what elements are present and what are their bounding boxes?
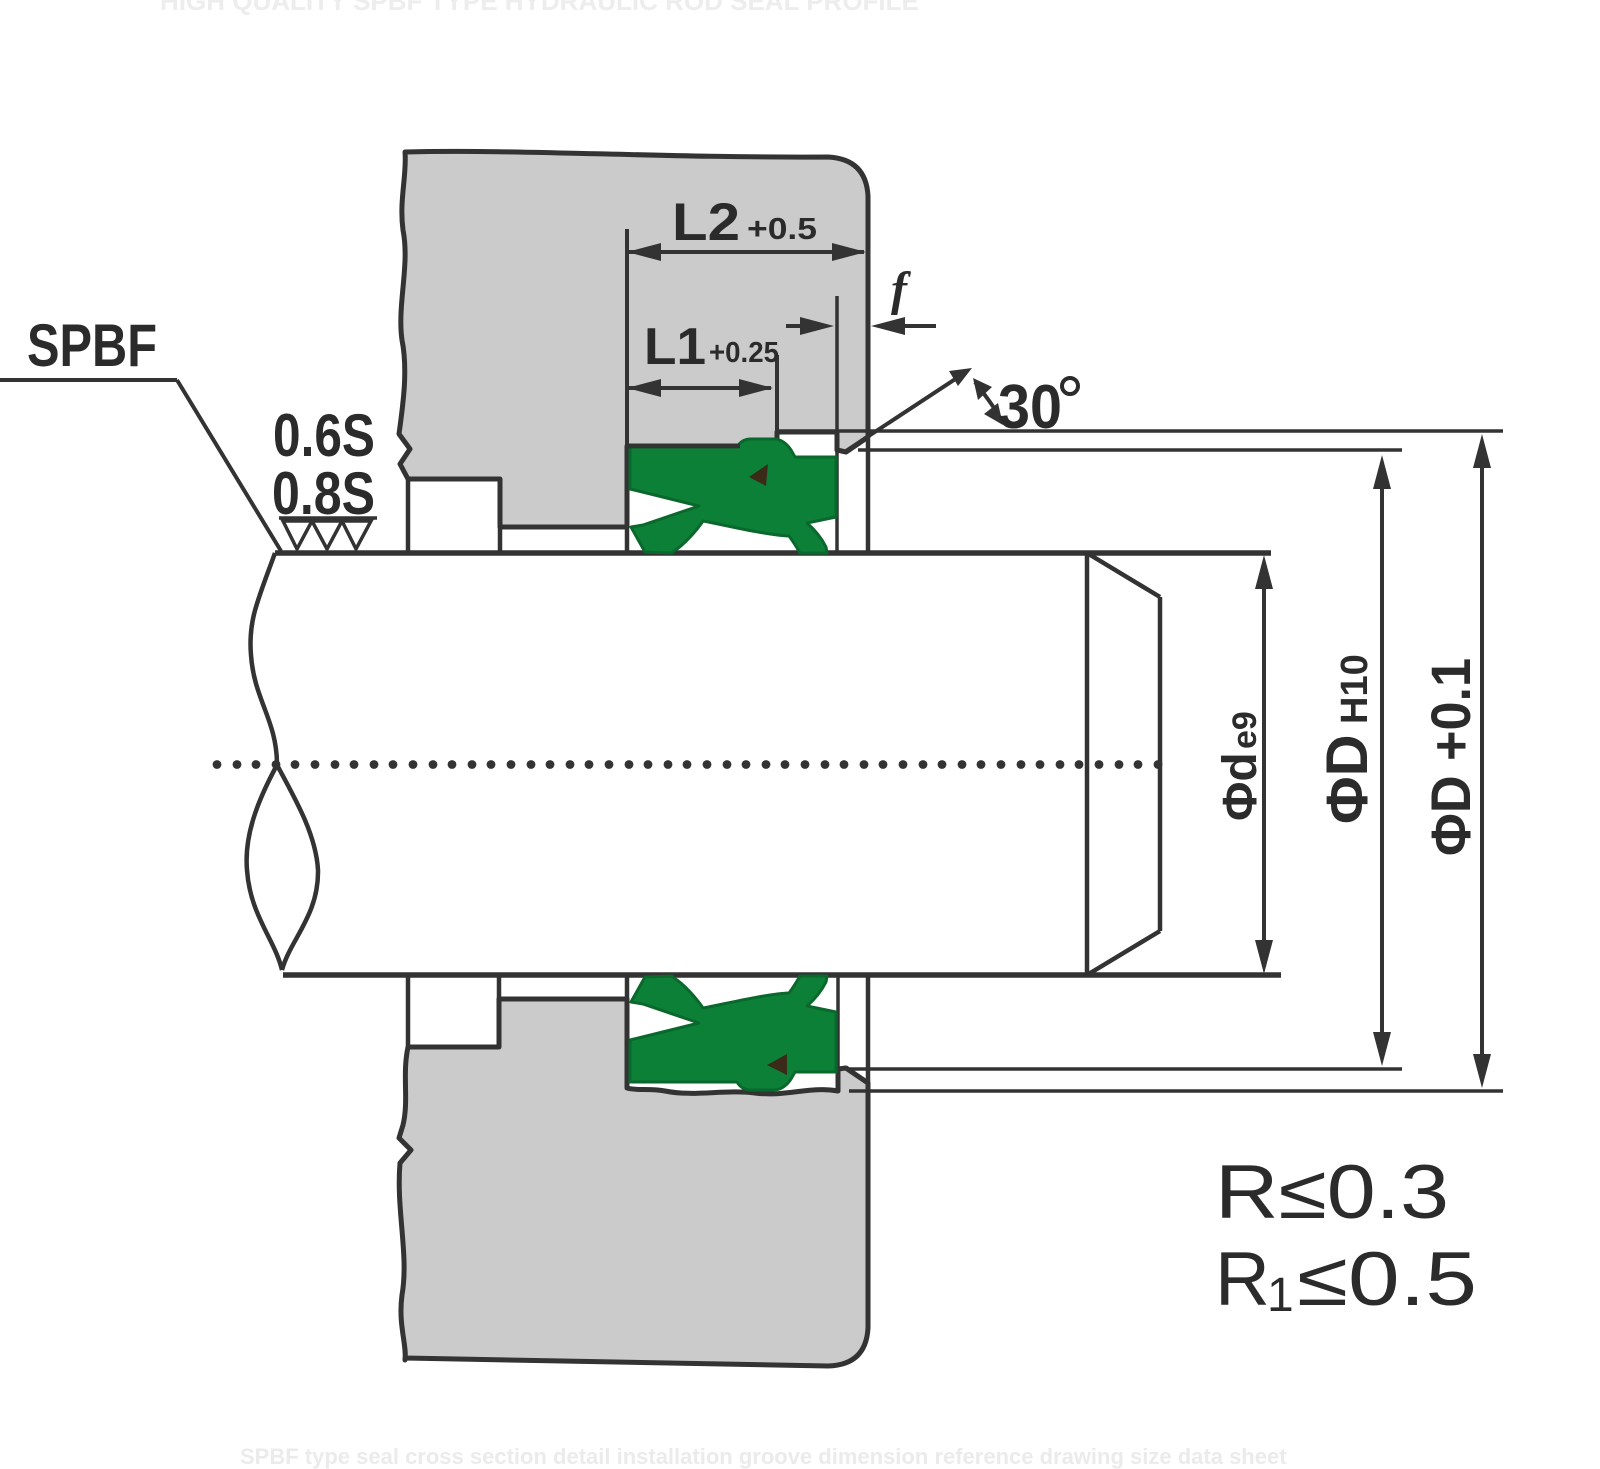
svg-text:0.6S: 0.6S [273,402,375,469]
svg-text:1: 1 [1267,1269,1294,1322]
svg-text:HIGH QUALITY SPBF TYPE HYDRAUL: HIGH QUALITY SPBF TYPE HYDRAULIC ROD SEA… [160,0,919,16]
svg-text:ΦD +0.1: ΦD +0.1 [1419,658,1482,856]
svg-text:L2: L2 [672,193,740,252]
svg-text:Φd: Φd [1214,752,1267,821]
svg-text:e9: e9 [1226,711,1264,749]
svg-text:R≤0.3: R≤0.3 [1215,1150,1449,1235]
svg-text:+0.25: +0.25 [709,337,779,369]
svg-text:f: f [891,263,911,316]
svg-text:ΦD: ΦD [1315,735,1380,825]
svg-text:H10: H10 [1334,654,1376,724]
svg-text:+0.5: +0.5 [747,211,817,246]
svg-text:≤0.5: ≤0.5 [1297,1237,1477,1322]
svg-text:SPBF: SPBF [27,312,157,379]
svg-text:L1: L1 [644,318,706,376]
svg-text:SPBF type seal cross section d: SPBF type seal cross section detail inst… [240,1444,1287,1469]
svg-text:R: R [1215,1237,1270,1322]
